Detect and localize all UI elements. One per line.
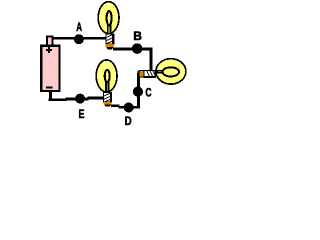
bulb L3 (right, pointing right) bbox=[138, 59, 186, 84]
svg-text:B: B bbox=[133, 29, 142, 43]
bulb L2 screw base bbox=[104, 93, 112, 102]
bulb L1 (top, pointing up) bbox=[98, 2, 119, 50]
bulb L1 filament stem bbox=[108, 24, 111, 34]
node E junction dot bbox=[75, 94, 85, 104]
node D junction dot bbox=[124, 103, 134, 113]
node C junction dot bbox=[133, 87, 143, 97]
wire bulb L2 base left to battery - corner through node E bbox=[49, 98, 67, 101]
wire battery - terminal down bbox=[49, 91, 52, 100]
node A junction dot bbox=[74, 34, 84, 44]
bulb L1 filament loop bbox=[107, 11, 112, 25]
battery body bbox=[41, 46, 59, 91]
wire bulb L1 tip to corner through node B bbox=[113, 48, 152, 51]
bulb L3 filament stem bbox=[157, 71, 166, 73]
wire lower corner to bulb L2 tip through node D bbox=[111, 104, 120, 107]
wire bulb L3 tip down through node C to lower corner bbox=[137, 73, 140, 109]
battery positive terminal tab bbox=[47, 37, 52, 46]
bulb L3 glass bbox=[156, 59, 186, 84]
battery + label bbox=[46, 47, 52, 53]
bulb L2 filament loop bbox=[105, 70, 110, 82]
battery - label bbox=[46, 87, 52, 89]
wire corner down from B to bulb L3 base top bbox=[150, 48, 153, 71]
bulb L2 contact tip bbox=[104, 102, 112, 105]
svg-text:A: A bbox=[76, 20, 82, 34]
bulb L1 glass bbox=[98, 2, 119, 34]
bulb L3 screw base bbox=[144, 70, 155, 77]
bulb L2 (middle, pointing up) bbox=[96, 60, 117, 107]
bulb L1 screw base bbox=[106, 34, 114, 44]
bulb L2 filament stem bbox=[106, 82, 109, 93]
bulb L3 contact tip bbox=[139, 71, 144, 77]
bulb L3 filament loop bbox=[163, 67, 179, 76]
svg-text:D: D bbox=[125, 114, 132, 128]
node B junction dot bbox=[132, 43, 143, 54]
bulb L1 contact tip bbox=[106, 44, 114, 47]
svg-text:E: E bbox=[79, 107, 85, 121]
svg-text:C: C bbox=[145, 85, 151, 99]
bulb L2 glass bbox=[96, 60, 117, 92]
wire battery + terminal to bulb L1 base (top wire through node A) bbox=[52, 37, 107, 40]
